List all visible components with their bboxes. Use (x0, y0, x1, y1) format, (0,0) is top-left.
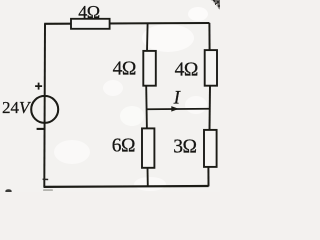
plus polarity mark (35, 83, 42, 90)
minus polarity mark (37, 128, 46, 130)
wire: middle horizontal with current (146, 108, 210, 111)
resistor R1 4ohm horizontal top (71, 19, 110, 29)
svg-text:4Ω: 4Ω (78, 2, 100, 22)
svg-text:4Ω: 4Ω (175, 59, 198, 80)
resistor R5 3ohm vertical (204, 130, 217, 167)
wire: top horizontal (44, 22, 209, 25)
resistor R3 4ohm vertical right (205, 50, 217, 86)
svg-text:3Ω: 3Ω (173, 137, 196, 158)
wire: branch 2 vertical upper (208, 23, 210, 51)
voltage source V1 circle (31, 96, 58, 123)
svg-text:4Ω: 4Ω (113, 59, 136, 80)
current arrow I head (171, 106, 179, 112)
scan smudge top-right corner (211, 0, 220, 10)
wire: branch 2 vertical lower (207, 167, 209, 187)
resistor R4 6ohm vertical (142, 128, 154, 167)
svg-text:6Ω: 6Ω (112, 135, 135, 156)
svg-text:24V: 24V (2, 98, 32, 117)
faint smudge under bottom-left corner (43, 189, 53, 191)
junction tick on left wire near bottom (43, 178, 49, 180)
wire: branch 1 vertical upper (146, 23, 149, 51)
wire: bottom horizontal (44, 185, 209, 188)
wire: left vertical (source branch) (43, 24, 46, 187)
wire: branch 2 vertical middle (209, 86, 212, 131)
resistor R2 4ohm vertical left (143, 51, 156, 86)
ink blot bottom-left (5, 189, 11, 193)
wire: branch 1 vertical lower (147, 167, 149, 186)
wire: branch 1 vertical middle (145, 85, 148, 128)
